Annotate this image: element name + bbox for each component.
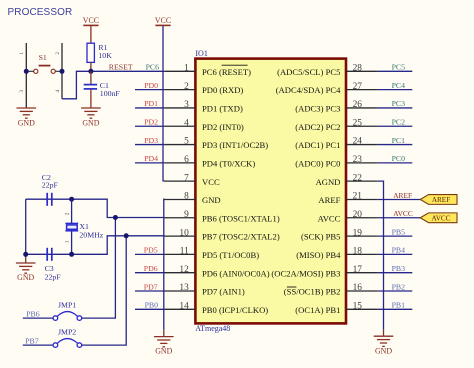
- wire VCC to R1: [90, 26, 92, 43]
- svg-text:PD3: PD3: [144, 136, 158, 145]
- ground under C1: [81, 108, 101, 128]
- svg-text:22pF: 22pF: [42, 181, 59, 190]
- ground for AGND: [374, 336, 394, 355]
- op-amp U1 IC IO1 ATmega48 body: [195, 49, 346, 333]
- wire pin 8 to GND: [163, 199, 166, 330]
- svg-text:2: 2: [65, 212, 71, 215]
- svg-text:PC0: PC0: [392, 154, 406, 163]
- wire caps to GND: [25, 199, 27, 257]
- svg-text:6: 6: [184, 155, 189, 165]
- pin 11 PD5 (T1/OC0B): [164, 247, 259, 260]
- svg-text:AVCC: AVCC: [318, 213, 341, 223]
- svg-text:22: 22: [353, 173, 363, 183]
- wire PB6 to JMP1: [23, 317, 53, 319]
- svg-text:15: 15: [353, 302, 363, 312]
- wire R1 to RESET node: [90, 62, 92, 71]
- pin 2 PD0 (RXD): [164, 82, 243, 95]
- pin 25 (ADC2) PC2: [295, 118, 377, 131]
- svg-text:1: 1: [65, 240, 71, 243]
- pin 14 PB0 (ICP1/CLKO): [164, 302, 268, 315]
- wire net PC3: [378, 107, 413, 109]
- junction JMP2/pin10: [124, 233, 129, 238]
- svg-text:PB5: PB5: [392, 227, 406, 236]
- svg-text:PB0: PB0: [145, 301, 159, 310]
- wire net PB4: [378, 253, 413, 255]
- pin 22 AGND: [316, 173, 378, 186]
- svg-text:17: 17: [353, 265, 363, 275]
- pin 16 (SS/OC1B) PB2: [284, 283, 378, 296]
- svg-text:PD1: PD1: [144, 99, 158, 108]
- svg-text:(ADC1) PC1: (ADC1) PC1: [295, 140, 340, 150]
- svg-text:PC4: PC4: [392, 81, 406, 90]
- power VCC (R1 pull-up supply): [83, 16, 99, 25]
- wire GND lead (AGND): [383, 329, 385, 336]
- svg-text:JMP1: JMP1: [58, 300, 76, 309]
- wire net PC2: [378, 125, 413, 127]
- jumper JMP2: [53, 327, 82, 347]
- pin 20 AVCC: [318, 210, 378, 223]
- wire net PC4: [378, 89, 413, 91]
- wire PB7 to JMP2: [23, 344, 53, 346]
- svg-text:PB4: PB4: [392, 246, 406, 255]
- svg-text:(OC2A/MOSI) PB3: (OC2A/MOSI) PB3: [271, 268, 340, 278]
- svg-text:S1: S1: [39, 53, 47, 62]
- svg-text:PROCESSOR: PROCESSOR: [8, 7, 73, 18]
- svg-text:(SS/OC1B) PB2: (SS/OC1B) PB2: [284, 287, 341, 297]
- svg-text:GND: GND: [202, 195, 221, 205]
- svg-text:(OC1A) PB1: (OC1A) PB1: [295, 305, 340, 315]
- svg-text:VCC: VCC: [83, 16, 99, 25]
- wire net PB1: [378, 308, 413, 310]
- pin 5 PD3 (INT1/OC2B): [164, 137, 268, 150]
- pin 18 (MISO) PB4: [296, 247, 377, 260]
- wire AVCC to port: [378, 217, 421, 219]
- overline RESET (pin 1 name): [222, 64, 248, 66]
- svg-text:11: 11: [180, 247, 189, 257]
- svg-text:1: 1: [184, 64, 189, 74]
- svg-text:AVCC: AVCC: [393, 209, 413, 218]
- svg-text:GND: GND: [155, 347, 172, 356]
- wire XTAL2 bottom run: [26, 236, 165, 255]
- svg-text:PB6 (TOSC1/XTAL1): PB6 (TOSC1/XTAL1): [202, 213, 280, 223]
- svg-text:14: 14: [179, 302, 189, 312]
- svg-text:AREF: AREF: [393, 191, 412, 200]
- pin 21 AREF: [318, 192, 377, 205]
- svg-text:PD4 (T0/XCK): PD4 (T0/XCK): [202, 158, 255, 168]
- svg-text:PB2: PB2: [392, 282, 406, 291]
- svg-text:PD1 (TXD): PD1 (TXD): [202, 104, 243, 114]
- wire net stub pin 2: [135, 89, 164, 91]
- svg-text:16: 16: [353, 283, 363, 293]
- svg-text:23: 23: [353, 155, 363, 165]
- wire S1 to RESET net: [62, 71, 91, 99]
- port AVCC: [420, 213, 457, 223]
- wire GND lead (pin 8): [163, 330, 165, 337]
- svg-text:(ADC5/SCL) PC5: (ADC5/SCL) PC5: [277, 67, 340, 77]
- pin 9 PB6 (TOSC1/XTAL1): [164, 210, 280, 223]
- wire RESET node to C1: [90, 71, 92, 84]
- wire net PC1: [378, 144, 413, 146]
- ground for crystal caps: [16, 263, 36, 282]
- svg-text:26: 26: [353, 100, 363, 110]
- pin 28 (ADC5/SCL) PC5: [277, 64, 378, 77]
- port AREF: [420, 195, 457, 205]
- junction C3 left: [23, 252, 28, 257]
- wire GND lead (caps): [25, 258, 27, 263]
- svg-text:1: 1: [20, 52, 25, 55]
- switch S1 pin 1 lead: [25, 43, 27, 108]
- wire net PB3: [378, 272, 413, 274]
- svg-text:(ADC2) PC2: (ADC2) PC2: [295, 122, 340, 132]
- svg-text:PC1: PC1: [392, 136, 406, 145]
- svg-text:PB7 (TOSC2/XTAL2): PB7 (TOSC2/XTAL2): [202, 232, 280, 242]
- wire net stub pin 13: [135, 290, 164, 292]
- wire net PC0: [378, 162, 413, 164]
- svg-text:3: 3: [20, 90, 25, 93]
- svg-text:GND: GND: [82, 119, 99, 128]
- wire net stub pin 6: [135, 162, 164, 164]
- svg-text:20: 20: [353, 210, 363, 220]
- pin 12 PD6 (AIN0/OC0A): [164, 265, 269, 278]
- pin 8 GND: [164, 192, 220, 205]
- overline SS (pin 16 name): [287, 286, 297, 288]
- svg-text:AREF: AREF: [318, 195, 340, 205]
- svg-text:RESET: RESET: [109, 62, 133, 71]
- svg-text:PD7 (AIN1): PD7 (AIN1): [202, 287, 245, 297]
- pin 26 (ADC3) PC3: [295, 100, 377, 113]
- junction RESET/R1/C1: [88, 69, 93, 74]
- pin 19 (SCK) PB5: [301, 228, 378, 241]
- svg-text:19: 19: [353, 228, 363, 238]
- svg-text:13: 13: [179, 283, 189, 293]
- svg-text:10: 10: [179, 228, 189, 238]
- svg-text:AGND: AGND: [316, 177, 341, 187]
- power VCC (pin 7 supply): [155, 16, 171, 25]
- svg-text:(SCK) PB5: (SCK) PB5: [301, 232, 340, 242]
- svg-text:25: 25: [353, 118, 363, 128]
- pin 27 (ADC4/SDA) PC4: [276, 82, 378, 95]
- svg-text:GND: GND: [17, 273, 34, 282]
- junction crystal bottom: [69, 252, 74, 257]
- svg-text:27: 27: [353, 82, 363, 92]
- pin 3 PD1 (TXD): [164, 100, 243, 113]
- crystal pin numbers: [65, 212, 71, 243]
- svg-text:PD0: PD0: [144, 81, 158, 90]
- wire net stub pin 12: [135, 272, 164, 274]
- svg-text:PD5 (T1/OC0B): PD5 (T1/OC0B): [202, 250, 259, 260]
- svg-text:PD2: PD2: [144, 118, 158, 127]
- pin 23 (ADC0) PC0: [295, 155, 377, 168]
- svg-text:PD7: PD7: [144, 282, 158, 291]
- svg-text:JMP2: JMP2: [58, 327, 76, 336]
- svg-text:2: 2: [56, 52, 61, 55]
- svg-text:22pF: 22pF: [45, 273, 62, 282]
- capacitor C3: [45, 248, 62, 282]
- ground under S1: [17, 108, 37, 128]
- svg-text:9: 9: [184, 210, 189, 220]
- svg-text:GND: GND: [375, 347, 392, 356]
- svg-text:24: 24: [353, 137, 363, 147]
- svg-text:10K: 10K: [98, 51, 112, 60]
- svg-text:PD4: PD4: [144, 154, 158, 163]
- pin 4 PD2 (INT0): [164, 118, 244, 131]
- pin 15 (OC1A) PB1: [295, 302, 377, 315]
- svg-text:20MHz: 20MHz: [79, 231, 103, 240]
- svg-text:(ADC3) PC3: (ADC3) PC3: [295, 104, 340, 114]
- svg-text:2: 2: [184, 82, 189, 92]
- pin 10 PB7 (TOSC2/XTAL2): [164, 228, 280, 241]
- svg-text:PD6: PD6: [144, 264, 158, 273]
- wire C1 to GND: [90, 90, 92, 108]
- svg-text:AVCC: AVCC: [431, 214, 450, 222]
- wire net PB2: [378, 290, 413, 292]
- svg-text:PD6 (AIN0/OC0A): PD6 (AIN0/OC0A): [202, 268, 270, 278]
- resistor R1: [87, 43, 112, 63]
- svg-text:PB0 (ICP1/CLKO): PB0 (ICP1/CLKO): [202, 305, 268, 315]
- wire RESET net to pin 1: [91, 70, 164, 72]
- svg-text:12: 12: [179, 265, 189, 275]
- svg-text:AREF: AREF: [432, 196, 450, 204]
- svg-text:VCC: VCC: [202, 177, 220, 187]
- svg-text:100nF: 100nF: [100, 89, 121, 98]
- svg-text:PB6: PB6: [26, 309, 40, 318]
- wire net stub pin 3: [135, 107, 164, 109]
- svg-text:PB1: PB1: [392, 301, 406, 310]
- svg-text:PB3: PB3: [392, 264, 406, 273]
- pin 6 PD4 (T0/XCK): [164, 155, 255, 168]
- svg-text:PC5: PC5: [392, 63, 406, 72]
- wire net stub pin 4: [135, 125, 164, 127]
- crystal X1: [65, 199, 103, 254]
- wire net PC5: [378, 70, 413, 72]
- wire JMP2 to pin 10: [82, 236, 126, 345]
- switch S1 body: [26, 53, 62, 73]
- svg-text:8: 8: [184, 192, 189, 202]
- svg-text:4: 4: [184, 118, 189, 128]
- switch S1 pin numbers: [20, 52, 61, 93]
- svg-text:4: 4: [56, 90, 61, 93]
- wire XTAL1 top run: [26, 199, 165, 217]
- svg-text:GND: GND: [18, 119, 35, 128]
- pin 24 (ADC1) PC1: [295, 137, 377, 150]
- wire net stub pin 14: [135, 308, 164, 310]
- svg-text:5: 5: [184, 137, 189, 147]
- svg-text:PB7: PB7: [25, 336, 39, 345]
- svg-text:(ADC0) PC0: (ADC0) PC0: [295, 158, 340, 168]
- svg-text:PC6 (RESET): PC6 (RESET): [202, 67, 251, 77]
- wire net PB5: [378, 235, 413, 237]
- ground for pin 8: [154, 337, 174, 356]
- capacitor C2: [42, 173, 59, 206]
- svg-text:PC6: PC6: [146, 62, 160, 71]
- svg-text:3: 3: [184, 100, 189, 110]
- svg-text:VCC: VCC: [155, 16, 171, 25]
- svg-text:PD3 (INT1/OC2B): PD3 (INT1/OC2B): [202, 140, 268, 150]
- svg-text:28: 28: [353, 64, 363, 74]
- svg-text:PC2: PC2: [392, 118, 406, 127]
- wire net stub pin 11: [135, 253, 164, 255]
- junction JMP1/pin9: [113, 215, 118, 220]
- svg-text:PD2 (INT0): PD2 (INT0): [202, 122, 244, 132]
- pin 17 (OC2A/MOSI) PB3: [271, 265, 377, 278]
- wire net stub pin 5: [135, 144, 164, 146]
- capacitor C1: [84, 81, 121, 98]
- svg-text:(MISO) PB4: (MISO) PB4: [296, 250, 341, 260]
- wire AGND to GND: [378, 181, 384, 329]
- wire AREF to port: [378, 198, 421, 200]
- svg-text:PD5: PD5: [144, 246, 158, 255]
- junction crystal top: [69, 197, 74, 202]
- wire VCC to pin 7: [163, 26, 165, 181]
- svg-text:21: 21: [353, 192, 363, 202]
- svg-text:ATmega48: ATmega48: [195, 324, 230, 333]
- switch S1 pin 2 lead: [61, 43, 63, 99]
- svg-text:18: 18: [353, 247, 363, 257]
- junction S1 left: [24, 69, 29, 74]
- wire JMP1 to pin 9: [82, 218, 116, 319]
- svg-text:IO1: IO1: [195, 49, 207, 58]
- pin 7 VCC: [164, 173, 220, 186]
- svg-text:PD0 (RXD): PD0 (RXD): [202, 85, 243, 95]
- svg-text:7: 7: [184, 173, 189, 183]
- jumper JMP1: [53, 300, 82, 320]
- pin 1 PC6 (RESET): [164, 64, 251, 77]
- svg-text:(ADC4/SDA) PC4: (ADC4/SDA) PC4: [276, 85, 341, 95]
- junction S1 right: [60, 69, 65, 74]
- pin 13 PD7 (AIN1): [164, 283, 245, 296]
- svg-text:PC3: PC3: [392, 99, 406, 108]
